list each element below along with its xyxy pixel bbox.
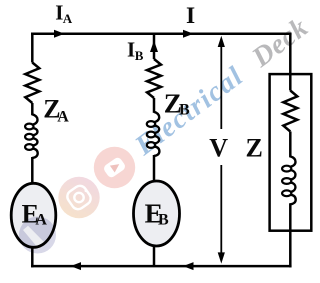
wire branch B drop from top bus bbox=[153, 34, 156, 59]
arrow I on top bus bbox=[183, 30, 194, 38]
resistor of load Z bbox=[283, 91, 297, 132]
inductor coil of load Z bbox=[290, 156, 295, 166]
wire right drop to load box bbox=[289, 34, 292, 75]
inductor coil Z_B bbox=[154, 112, 159, 122]
V measurement arrow line bbox=[220, 44, 222, 256]
svg-text:Electrical Deck: Electrical Deck bbox=[129, 12, 314, 162]
arrow I_A on top bus bbox=[54, 30, 65, 38]
resistor Z_B bbox=[147, 59, 161, 98]
watermark instagram dot bbox=[85, 189, 88, 192]
wire load coil to bottom bus bbox=[289, 203, 292, 267]
wire Z_B resistor to coil bbox=[153, 98, 156, 113]
wire bottom bus bbox=[31, 265, 292, 268]
watermark circle icon 3 youtube bbox=[94, 147, 135, 188]
wire left drop from top-left corner bbox=[31, 33, 34, 63]
resistor Z_A bbox=[25, 63, 39, 104]
wire load resistor to coil bbox=[289, 132, 292, 158]
arrowhead V top bbox=[218, 36, 225, 47]
wire box top to load resistor bbox=[289, 74, 292, 91]
wire E_A to bottom bus bbox=[31, 247, 34, 267]
watermark circle icon 2 instagram bbox=[58, 177, 99, 218]
arrowhead V bottom bbox=[218, 252, 225, 263]
watermark icon 1 white wedge bbox=[23, 226, 46, 249]
arrow I_B pointing up bbox=[150, 41, 158, 53]
source E_A circle bbox=[11, 183, 56, 247]
arrow on bottom bus left (return A) bbox=[71, 262, 82, 270]
watermark instagram lens bbox=[74, 193, 83, 202]
source E_B circle bbox=[134, 181, 180, 246]
watermark instagram rounded square bbox=[65, 183, 93, 211]
wire top bus bbox=[31, 33, 292, 36]
white gap behind V label bbox=[207, 129, 233, 165]
watermark youtube play triangle bbox=[110, 161, 122, 173]
wire E_B to bottom bus bbox=[153, 246, 156, 266]
arrow on bottom bus right (return B) bbox=[183, 262, 194, 270]
wire coil to E_B bbox=[153, 155, 156, 182]
inductor coil Z_A bbox=[32, 114, 37, 124]
watermark youtube lozenge bbox=[102, 156, 126, 179]
wire coil to E_A bbox=[31, 157, 34, 184]
wire Z_A resistor to coil bbox=[31, 103, 34, 115]
watermark circle icon 1 bbox=[19, 217, 56, 254]
load box Z bbox=[270, 74, 312, 231]
